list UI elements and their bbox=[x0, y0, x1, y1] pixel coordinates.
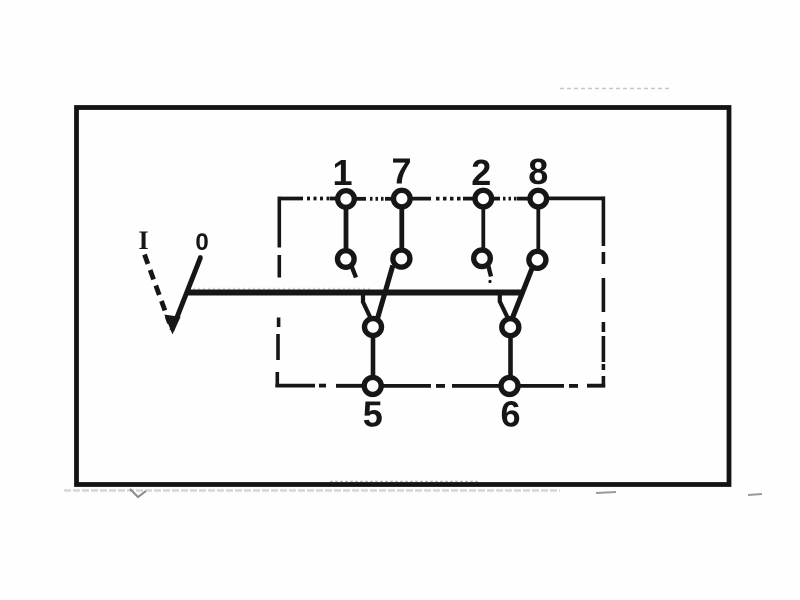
svg-text:5: 5 bbox=[363, 394, 383, 435]
svg-text:2: 2 bbox=[471, 152, 491, 193]
svg-text:0: 0 bbox=[195, 229, 208, 256]
svg-text:8: 8 bbox=[528, 151, 548, 192]
svg-text:6: 6 bbox=[500, 394, 520, 435]
svg-text:I: I bbox=[138, 226, 148, 255]
svg-text:7: 7 bbox=[391, 151, 411, 192]
svg-text:1: 1 bbox=[332, 152, 352, 193]
